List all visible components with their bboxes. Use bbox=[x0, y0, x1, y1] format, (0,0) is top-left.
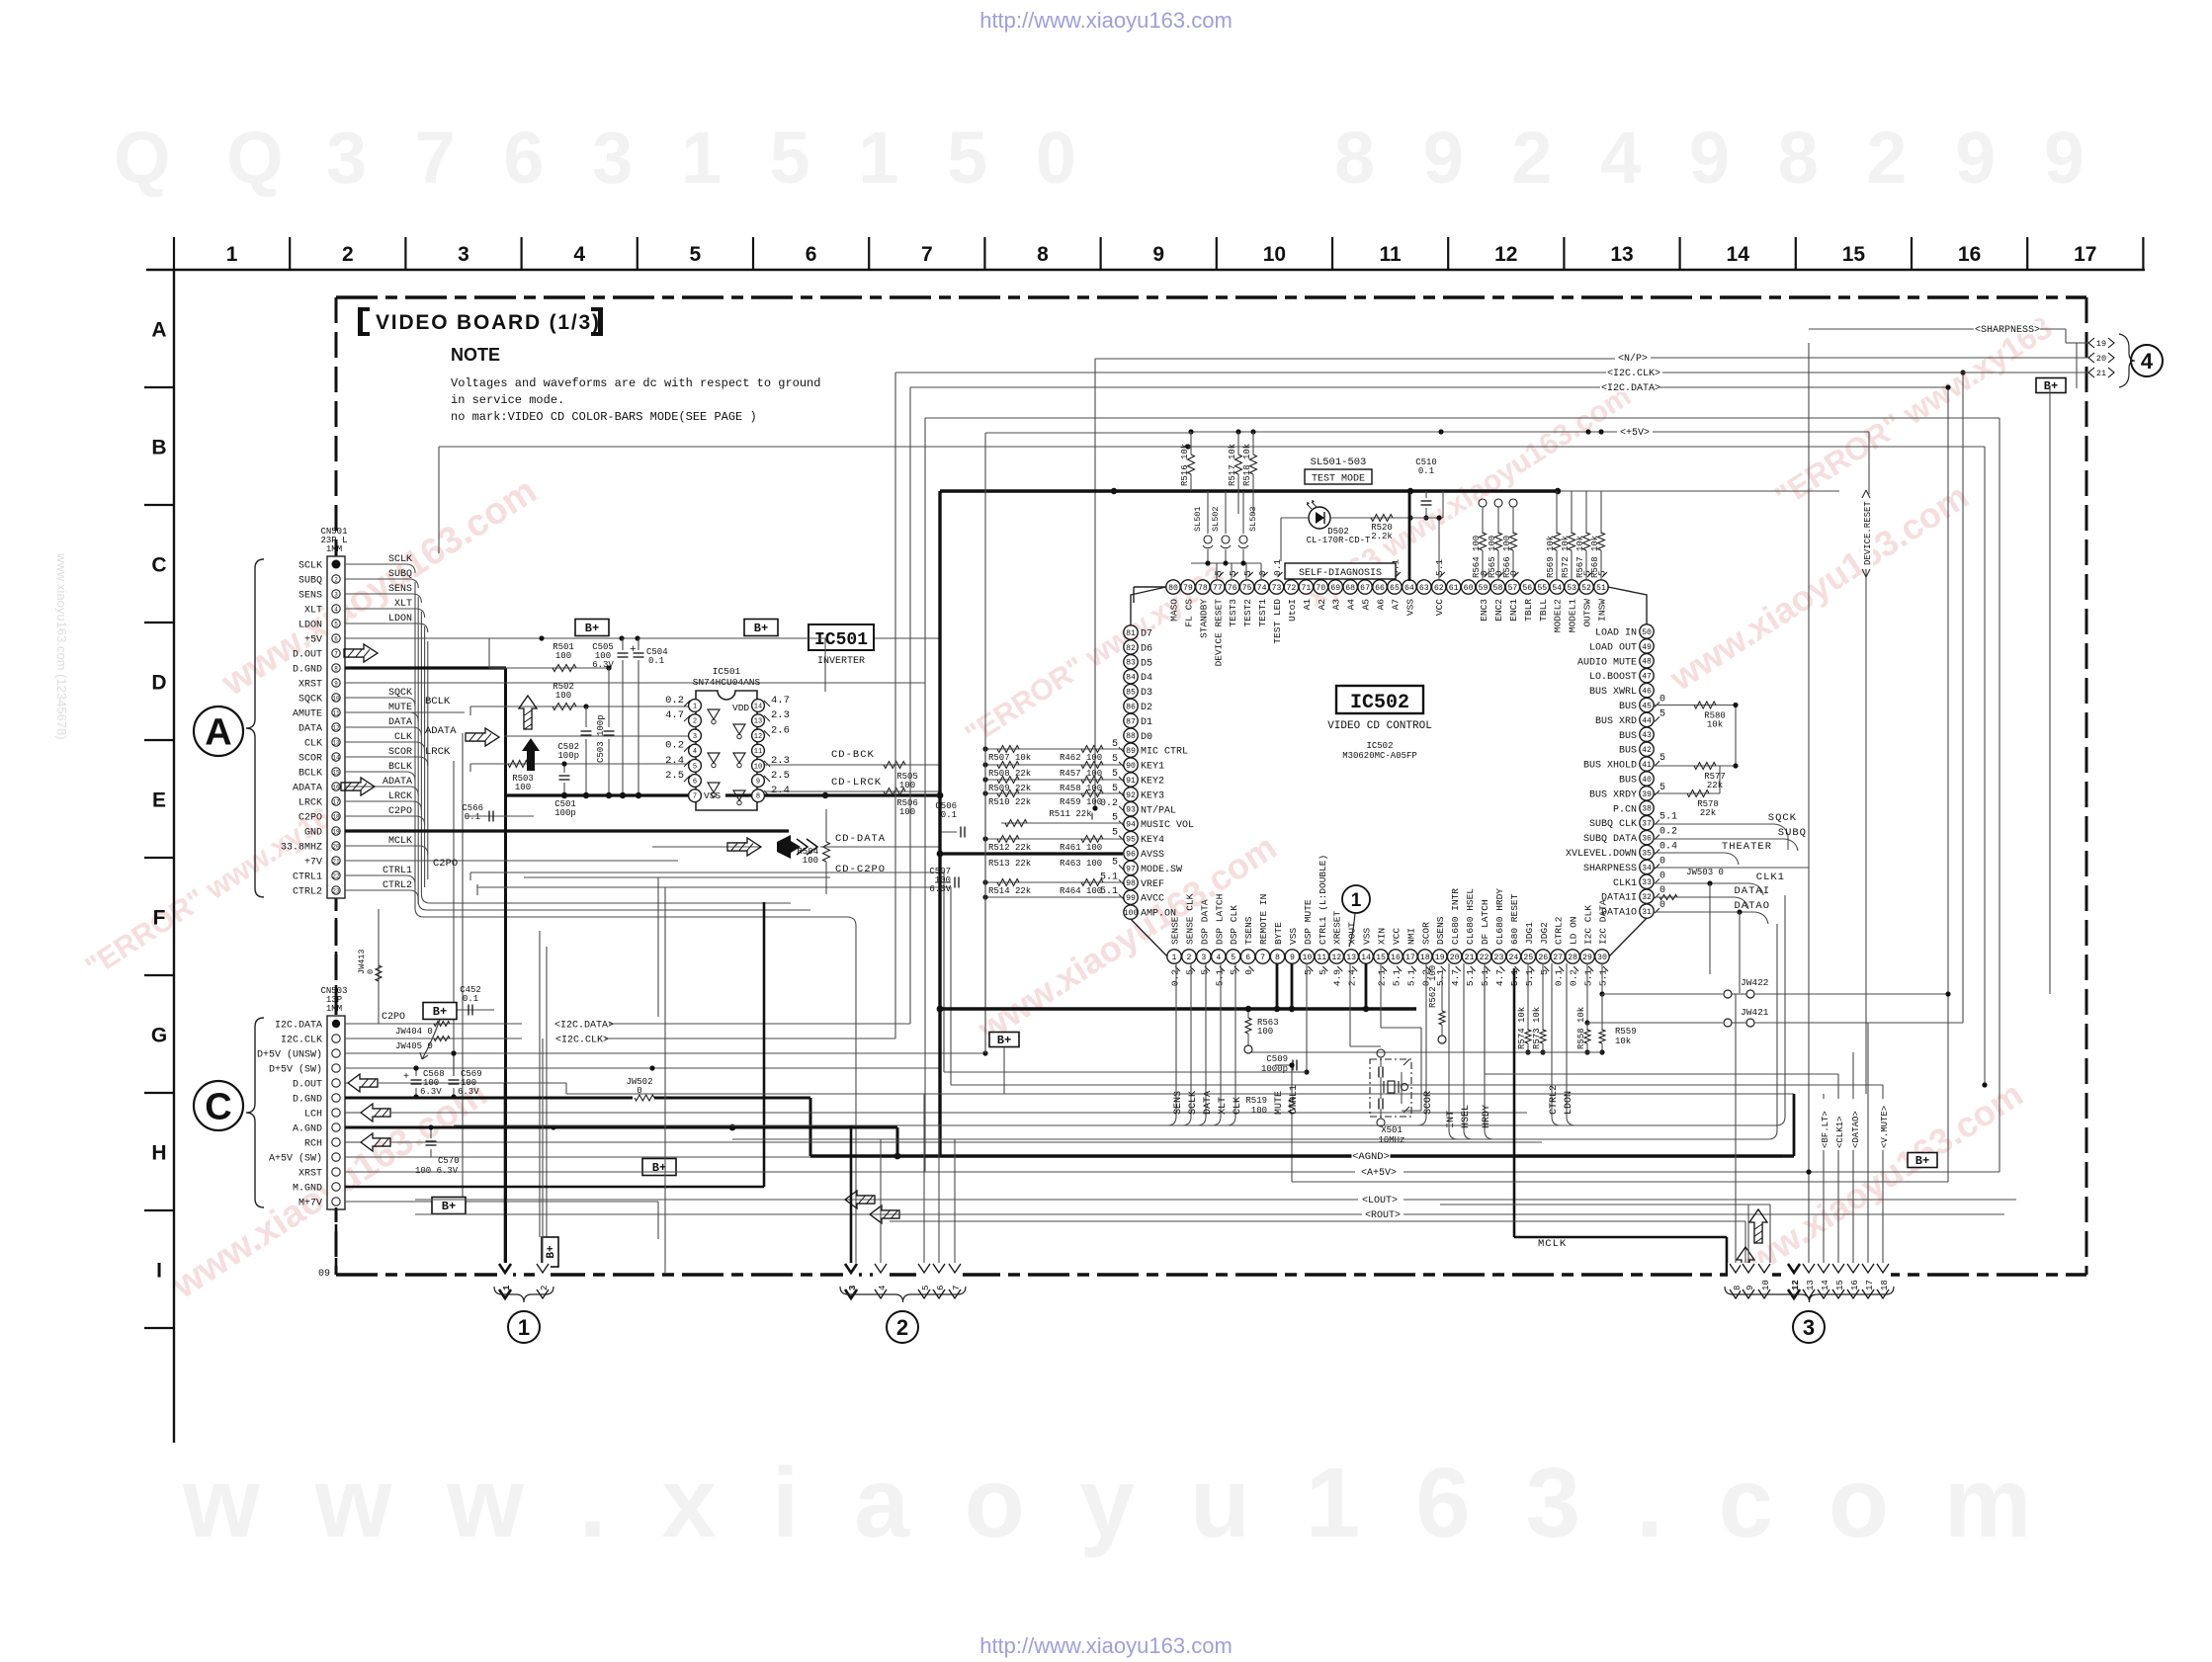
svg-text:http://www.xiaoyu163.com: http://www.xiaoyu163.com bbox=[979, 8, 1233, 33]
bus y1139 bbox=[454, 1124, 1776, 1126]
svg-text:DATA1O: DATA1O bbox=[1601, 908, 1637, 919]
svg-text:5: 5 bbox=[1659, 753, 1665, 764]
svg-text:5: 5 bbox=[1112, 857, 1118, 868]
svg-text:78: 78 bbox=[1198, 584, 1208, 593]
wire BCLK long bbox=[470, 706, 688, 707]
svg-text:5.1: 5.1 bbox=[1583, 969, 1594, 986]
IC502 pin 85 bbox=[1124, 684, 1138, 698]
svg-text:R573 10k: R573 10k bbox=[1532, 1007, 1542, 1049]
svg-text:D.GND: D.GND bbox=[293, 665, 322, 676]
switch SL501 bbox=[1207, 491, 1209, 534]
svg-text:8: 8 bbox=[334, 665, 338, 672]
IC502 pin 63 bbox=[1417, 580, 1431, 594]
svg-text:JW404 0: JW404 0 bbox=[395, 1027, 433, 1037]
svg-text:5.1: 5.1 bbox=[1214, 969, 1225, 986]
IC502 pin 77 bbox=[1211, 580, 1225, 594]
svg-text:10: 10 bbox=[1302, 954, 1312, 962]
svg-text:38: 38 bbox=[1642, 805, 1652, 814]
svg-text:20: 20 bbox=[332, 843, 340, 850]
svg-text:5.1: 5.1 bbox=[1659, 812, 1677, 823]
brace group 1-2 bbox=[494, 1287, 553, 1302]
svg-text:75: 75 bbox=[1242, 584, 1252, 593]
svg-text:1: 1 bbox=[1351, 890, 1362, 911]
svg-text:INSW: INSW bbox=[1596, 599, 1607, 622]
AGND thick bus bbox=[810, 1154, 1782, 1157]
IC502 pin 45 bbox=[1640, 698, 1654, 711]
wire CLK down bbox=[1234, 963, 1236, 1117]
svg-text:TEST MODE: TEST MODE bbox=[1312, 474, 1365, 485]
VSS pin64 thick drop bbox=[1408, 491, 1411, 581]
svg-text:XVLEVEL.DOWN: XVLEVEL.DOWN bbox=[1566, 849, 1637, 860]
svg-text:SUBQ: SUBQ bbox=[298, 576, 322, 587]
svg-text:R509 22k: R509 22k bbox=[988, 784, 1031, 793]
svg-text:D5: D5 bbox=[1141, 658, 1152, 669]
capacitor C501 bbox=[563, 764, 565, 773]
IC502 pin 8 bbox=[1270, 950, 1284, 963]
svg-text:5: 5 bbox=[1112, 813, 1118, 824]
svg-text:59: 59 bbox=[1479, 584, 1489, 593]
svg-text:13: 13 bbox=[1610, 243, 1633, 266]
IC502 pin 52 bbox=[1579, 580, 1593, 594]
svg-text:F: F bbox=[153, 907, 166, 930]
IC502 pin 29 bbox=[1580, 950, 1594, 963]
CN501 pin 1 SCLK bbox=[332, 560, 341, 569]
svg-text:18: 18 bbox=[1880, 1280, 1890, 1290]
IC502 pin 68 bbox=[1343, 580, 1357, 594]
border arrow 3 bbox=[843, 1263, 859, 1298]
svg-text:12: 12 bbox=[1331, 954, 1341, 962]
svg-text:5.1: 5.1 bbox=[1465, 969, 1476, 986]
IC502 pin 98 bbox=[1124, 875, 1138, 889]
svg-text:A.GND: A.GND bbox=[293, 1124, 322, 1135]
CN503 pin 13 M+7V bbox=[332, 1198, 340, 1205]
brace group 3-7 bbox=[840, 1287, 966, 1302]
svg-text:SCOR: SCOR bbox=[1423, 1091, 1434, 1115]
CN503 pin 10 A+5V (SW) bbox=[332, 1153, 340, 1161]
wire AVCC bbox=[985, 896, 1123, 898]
svg-text:STANDBY: STANDBY bbox=[1198, 599, 1209, 638]
svg-text:ENC2: ENC2 bbox=[1493, 599, 1504, 622]
wire CN501 +7V bbox=[345, 860, 678, 862]
svg-text:60: 60 bbox=[1464, 584, 1474, 593]
svg-text:B+: B+ bbox=[1915, 1154, 1929, 1168]
svg-text:0.1: 0.1 bbox=[941, 810, 957, 820]
capacitor C502 bbox=[585, 706, 587, 727]
svg-text:P.CN: P.CN bbox=[1613, 804, 1637, 815]
svg-text:CTRL1: CTRL1 bbox=[1289, 1085, 1300, 1115]
wire CN501 GND thick bbox=[345, 829, 789, 832]
svg-text:84: 84 bbox=[1126, 674, 1136, 683]
svg-text:R513 22k: R513 22k bbox=[988, 859, 1031, 869]
svg-text:0.2: 0.2 bbox=[1100, 798, 1118, 809]
IC502 pin 32 bbox=[1640, 889, 1654, 903]
svg-text:LDON: LDON bbox=[388, 614, 412, 624]
svg-text:100p: 100p bbox=[554, 808, 576, 818]
border arrow 4 bbox=[873, 1263, 889, 1298]
IC502 pin 93 bbox=[1124, 802, 1138, 816]
pullup circles ENC bbox=[1479, 499, 1487, 507]
svg-text:100: 100 bbox=[803, 856, 818, 866]
svg-text:DATA1I: DATA1I bbox=[1601, 893, 1637, 904]
svg-text:C: C bbox=[205, 1087, 231, 1128]
svg-text:12: 12 bbox=[332, 724, 340, 731]
svg-text:50: 50 bbox=[1642, 628, 1652, 637]
IC502 pin 27 bbox=[1551, 950, 1565, 963]
wire CD-C2PO bbox=[524, 876, 830, 878]
svg-text:I2C.CLK: I2C.CLK bbox=[281, 1036, 322, 1046]
wire HSEL bbox=[1463, 963, 1465, 1130]
svg-text:9: 9 bbox=[1290, 954, 1295, 962]
IC502 pin 70 bbox=[1314, 580, 1327, 594]
svg-text:93: 93 bbox=[1126, 806, 1136, 815]
svg-text:C2PO: C2PO bbox=[433, 858, 458, 870]
IC502 pin 48 bbox=[1640, 654, 1654, 668]
svg-text:M30620MC-A05FP: M30620MC-A05FP bbox=[1342, 751, 1417, 761]
svg-text:R462 100: R462 100 bbox=[1060, 753, 1102, 763]
IC502 pin 86 bbox=[1124, 699, 1138, 712]
svg-text:19: 19 bbox=[332, 828, 340, 835]
svg-text:16: 16 bbox=[332, 784, 340, 790]
svg-text:16: 16 bbox=[1850, 1280, 1860, 1290]
svg-text:CTRL2: CTRL2 bbox=[1554, 916, 1565, 945]
svg-text:0: 0 bbox=[1659, 856, 1665, 867]
svg-text:40: 40 bbox=[1642, 776, 1652, 785]
svg-text:D.GND: D.GND bbox=[293, 1095, 322, 1106]
border arrow 14 bbox=[1816, 1263, 1831, 1298]
svg-text:LRCK: LRCK bbox=[388, 791, 412, 802]
svg-text:IC502: IC502 bbox=[1350, 692, 1409, 714]
svg-text:MODEL2: MODEL2 bbox=[1553, 599, 1564, 633]
svg-text:VSS: VSS bbox=[1404, 599, 1415, 616]
resistor R511 bbox=[1001, 822, 1123, 824]
wire CN501 SCOR bbox=[345, 756, 419, 758]
svg-text:TBLR: TBLR bbox=[1523, 599, 1534, 622]
svg-text:11: 11 bbox=[332, 709, 340, 716]
wire CTRL1 long bbox=[470, 872, 944, 873]
resistor R564 bbox=[1480, 533, 1487, 550]
svg-text:49: 49 bbox=[1642, 643, 1652, 652]
svg-text:5: 5 bbox=[1659, 783, 1665, 793]
svg-text:SL502: SL502 bbox=[1211, 506, 1221, 532]
svg-text:w w w . x i a o y u 1 6 3 . c: w w w . x i a o y u 1 6 3 . c o m bbox=[182, 1448, 2046, 1558]
resistor R572 bbox=[1571, 491, 1573, 534]
svg-text:THEATER: THEATER bbox=[1722, 841, 1772, 853]
brace group 8-18 bbox=[1725, 1287, 1894, 1302]
svg-text:TEST2: TEST2 bbox=[1242, 599, 1253, 627]
svg-text:BUS: BUS bbox=[1619, 746, 1637, 757]
vertical labels above arrows bbox=[1818, 1099, 1829, 1150]
wire CN501 ADATA bbox=[345, 786, 409, 788]
svg-text:CL680 INTR: CL680 INTR bbox=[1450, 888, 1461, 945]
IC502 pin 6 bbox=[1240, 950, 1254, 963]
resistor R565 bbox=[1495, 533, 1502, 550]
border arrow 10 bbox=[1756, 1263, 1772, 1298]
svg-text:79: 79 bbox=[1183, 584, 1193, 593]
svg-text:R461 100: R461 100 bbox=[1060, 843, 1102, 853]
CN503 pin 3 D+5V (UNSW) bbox=[332, 1049, 340, 1057]
CN501 pin 16 ADATA bbox=[332, 783, 340, 790]
svg-text:14: 14 bbox=[1727, 243, 1750, 266]
IC502 outline bbox=[1131, 587, 1166, 625]
wire loop y452 bbox=[438, 447, 440, 553]
svg-text:DSP DATA: DSP DATA bbox=[1199, 899, 1210, 945]
IC502 pin 96 bbox=[1124, 846, 1138, 860]
svg-text:MIC CTRL: MIC CTRL bbox=[1141, 747, 1188, 758]
svg-text:R459 100: R459 100 bbox=[1060, 797, 1102, 807]
wire CN503 XRST bbox=[345, 1171, 925, 1173]
IC502 pin 89 bbox=[1124, 743, 1138, 757]
svg-text:1MM: 1MM bbox=[326, 544, 342, 554]
svg-text:http://www.xiaoyu163.com: http://www.xiaoyu163.com bbox=[979, 1633, 1233, 1658]
svg-text:DATAI: DATAI bbox=[1734, 885, 1770, 897]
svg-text:2.6: 2.6 bbox=[771, 724, 790, 736]
IC502 pin 47 bbox=[1640, 669, 1654, 683]
thick AVSS wire bbox=[940, 852, 1123, 855]
svg-text:CLK1: CLK1 bbox=[1756, 872, 1785, 883]
capacitor C503 bbox=[608, 668, 610, 727]
svg-text:18: 18 bbox=[332, 813, 340, 820]
IC502 pin 97 bbox=[1124, 861, 1138, 874]
svg-text:JDG2: JDG2 bbox=[1539, 922, 1550, 945]
svg-text:16: 16 bbox=[1391, 954, 1401, 962]
svg-text:8: 8 bbox=[1275, 954, 1280, 962]
svg-text:100: 100 bbox=[1124, 909, 1139, 918]
svg-text:57: 57 bbox=[1507, 584, 1517, 593]
svg-text:3: 3 bbox=[693, 733, 697, 741]
IC502 pin 2 bbox=[1182, 950, 1196, 963]
svg-text:2.5: 2.5 bbox=[665, 770, 684, 782]
svg-text:SQCK: SQCK bbox=[1768, 812, 1797, 824]
svg-text:DATA: DATA bbox=[388, 717, 412, 728]
svg-text:77: 77 bbox=[1213, 584, 1223, 593]
IC502 pin 71 bbox=[1299, 580, 1313, 594]
CN503 pin 9 RCH bbox=[332, 1138, 340, 1146]
svg-text:<DATAO>: <DATAO> bbox=[1851, 1111, 1861, 1148]
svg-text:88: 88 bbox=[1126, 732, 1136, 741]
svg-text:D3: D3 bbox=[1141, 688, 1152, 699]
svg-text:4.7: 4.7 bbox=[665, 709, 684, 721]
svg-text:ENC1: ENC1 bbox=[1508, 599, 1519, 622]
IC502 pin 26 bbox=[1536, 950, 1550, 963]
svg-text:MCLK: MCLK bbox=[388, 836, 412, 847]
svg-text:MCLK: MCLK bbox=[1538, 1238, 1567, 1250]
resistor R507 bbox=[985, 748, 1123, 750]
svg-text:0.1: 0.1 bbox=[1418, 466, 1434, 476]
resistor R512 bbox=[985, 838, 1123, 840]
IC502 pin 11 bbox=[1315, 950, 1328, 963]
IC501 pins left bbox=[689, 700, 702, 712]
svg-text:OUTSW: OUTSW bbox=[1582, 599, 1593, 627]
svg-text:10k: 10k bbox=[1707, 720, 1723, 730]
svg-text:A+5V (SW): A+5V (SW) bbox=[269, 1153, 322, 1165]
wire LDON bbox=[1566, 963, 1568, 1117]
IC502 pin 64 bbox=[1403, 580, 1416, 594]
IC502 pin 65 bbox=[1388, 580, 1402, 594]
svg-text:23: 23 bbox=[332, 887, 340, 894]
IC502 pin 15 bbox=[1374, 950, 1388, 963]
wire CN501 D.GND thick bbox=[345, 666, 506, 669]
arrow ROUT bbox=[870, 1205, 899, 1223]
svg-text:B+: B+ bbox=[546, 1245, 557, 1259]
svg-text:0.2: 0.2 bbox=[665, 695, 684, 706]
svg-text:SUBQ: SUBQ bbox=[1778, 827, 1807, 839]
CN501 pin 13 CLK bbox=[332, 738, 340, 746]
wire CN501 XLT bbox=[345, 608, 416, 610]
wire CN501 CLK bbox=[345, 741, 416, 743]
svg-text:LCH: LCH bbox=[304, 1110, 322, 1121]
svg-text:3: 3 bbox=[334, 591, 338, 598]
svg-text:SENSE: SENSE bbox=[1170, 916, 1181, 945]
svg-text:<I2C.CLK>: <I2C.CLK> bbox=[555, 1036, 609, 1046]
svg-text:10k: 10k bbox=[1615, 1037, 1631, 1046]
svg-text:53: 53 bbox=[1567, 584, 1576, 593]
IC502 pin 49 bbox=[1640, 639, 1654, 653]
border arrow 17 bbox=[1860, 1263, 1876, 1298]
svg-text:KEY3: KEY3 bbox=[1141, 790, 1164, 801]
capacitor C505 bbox=[622, 638, 624, 650]
IC502 pin 83 bbox=[1124, 655, 1138, 669]
CN501 pin 5 LDON bbox=[332, 620, 340, 627]
svg-text:3: 3 bbox=[458, 243, 469, 266]
CN501 pin 18 C2PO bbox=[332, 812, 340, 820]
IC502 pin 92 bbox=[1124, 788, 1138, 801]
ruler row ticks and letters bbox=[144, 386, 174, 388]
svg-text:0: 0 bbox=[1659, 900, 1665, 911]
IC502 pin 3 bbox=[1197, 950, 1211, 963]
svg-text:+5V: +5V bbox=[304, 635, 322, 646]
svg-text:JW421: JW421 bbox=[1741, 1007, 1769, 1018]
svg-text:<I2C.CLK>: <I2C.CLK> bbox=[1607, 369, 1660, 379]
wire CN501 SCLK bbox=[345, 563, 406, 565]
CN503 pin 5 D.OUT bbox=[332, 1079, 340, 1087]
svg-text:XRST: XRST bbox=[298, 680, 322, 691]
IC502 pin 72 bbox=[1284, 580, 1298, 594]
IC502 pin 18 bbox=[1418, 950, 1432, 963]
svg-text:AVCC: AVCC bbox=[1141, 894, 1164, 905]
svg-text:9: 9 bbox=[1152, 243, 1164, 266]
CN503 pin 8 A.GND bbox=[332, 1123, 340, 1131]
svg-text:SCLK: SCLK bbox=[1188, 1091, 1199, 1115]
svg-text:87: 87 bbox=[1126, 717, 1136, 726]
wire DATA down bbox=[1205, 963, 1207, 1117]
svg-text:4.7: 4.7 bbox=[1494, 969, 1505, 986]
resistor R520 bbox=[1330, 517, 1410, 519]
IC502 pin 53 bbox=[1565, 580, 1578, 594]
svg-text:I2C.DATA: I2C.DATA bbox=[275, 1021, 322, 1032]
svg-text:A: A bbox=[151, 319, 166, 342]
svg-text:<N/P>: <N/P> bbox=[1618, 353, 1648, 365]
svg-text:R567 10k: R567 10k bbox=[1575, 536, 1585, 578]
IC502 pin 13 bbox=[1344, 950, 1358, 963]
svg-text:LO.BOOST: LO.BOOST bbox=[1589, 672, 1637, 683]
IC502 pin 14 bbox=[1359, 950, 1373, 963]
svg-text:BUS: BUS bbox=[1619, 776, 1637, 787]
CN501 pin 6 +5V bbox=[332, 634, 340, 642]
B+ box c452 bbox=[423, 1003, 457, 1020]
svg-text:14: 14 bbox=[1821, 1280, 1830, 1290]
wire loop N/P bbox=[1095, 358, 1615, 360]
schematic border bbox=[336, 295, 2086, 298]
svg-text:R572 10k: R572 10k bbox=[1561, 536, 1571, 578]
svg-text:2: 2 bbox=[334, 576, 338, 583]
IC502 pin 87 bbox=[1124, 713, 1138, 727]
svg-text:13: 13 bbox=[332, 739, 340, 746]
svg-text:81: 81 bbox=[1126, 629, 1136, 638]
vertical bus left of IC502 bbox=[984, 749, 986, 1053]
svg-text:SCLK: SCLK bbox=[388, 554, 412, 565]
circled 3 bottom bbox=[1793, 1311, 1825, 1343]
svg-text:B+: B+ bbox=[652, 1161, 666, 1175]
svg-text:INVERTER: INVERTER bbox=[817, 656, 865, 667]
svg-text:D: D bbox=[151, 672, 166, 695]
svg-text:<+5V>: <+5V> bbox=[1620, 428, 1650, 439]
svg-text:VIDEO CD CONTROL: VIDEO CD CONTROL bbox=[1327, 720, 1432, 732]
wire CN503 LCH bbox=[345, 1112, 361, 1114]
CN501 pin 2 SUBQ bbox=[332, 575, 340, 583]
CN503 pin 11 XRST bbox=[332, 1168, 340, 1176]
svg-text:1: 1 bbox=[693, 703, 697, 710]
svg-text:M.GND: M.GND bbox=[293, 1184, 322, 1195]
svg-text:30: 30 bbox=[1597, 954, 1607, 962]
IC502 pin 1 bbox=[1167, 950, 1181, 963]
wire SCLK down bbox=[1190, 963, 1192, 1117]
svg-text:5: 5 bbox=[690, 243, 702, 266]
svg-text:R564 100: R564 100 bbox=[1472, 536, 1482, 578]
svg-text:39: 39 bbox=[1642, 790, 1652, 799]
IC502 pin 99 bbox=[1124, 890, 1138, 904]
svg-text:VDD: VDD bbox=[732, 703, 749, 713]
svg-text:7: 7 bbox=[693, 793, 697, 801]
svg-text:in service mode.: in service mode. bbox=[451, 393, 564, 407]
ruler top line bbox=[146, 269, 2145, 271]
svg-text:21: 21 bbox=[332, 858, 340, 865]
svg-text:MUTE: MUTE bbox=[388, 703, 412, 713]
TEST MODE box bbox=[1305, 469, 1372, 484]
ruler col ticks and numbers bbox=[173, 237, 175, 270]
IC502 label box bbox=[1336, 686, 1423, 713]
svg-text:19: 19 bbox=[2096, 339, 2106, 349]
svg-text:13: 13 bbox=[1806, 1280, 1816, 1290]
svg-text:0.1: 0.1 bbox=[1554, 969, 1565, 986]
svg-text:CTRL1 (L:DOUBLE): CTRL1 (L:DOUBLE) bbox=[1318, 855, 1328, 945]
CN503 pin 6 D.GND bbox=[332, 1094, 340, 1102]
resistor R580 bbox=[1655, 705, 1736, 706]
IC501 inverter gates bbox=[708, 709, 720, 719]
svg-text:<ROUT>: <ROUT> bbox=[1365, 1210, 1401, 1221]
svg-text:69: 69 bbox=[1330, 584, 1340, 593]
svg-text:3: 3 bbox=[1201, 954, 1206, 962]
svg-text:21: 21 bbox=[2096, 369, 2106, 378]
IC502 pin 54 bbox=[1550, 580, 1564, 594]
off-page arrow D.OUT bbox=[344, 644, 378, 662]
svg-text:71: 71 bbox=[1301, 584, 1311, 593]
svg-text:8: 8 bbox=[1037, 243, 1049, 266]
border arrow 8 bbox=[1728, 1263, 1744, 1298]
B+ box top right bbox=[2036, 378, 2066, 393]
svg-text:www.xiaoyu163.com (12345678): www.xiaoyu163.com (12345678) bbox=[54, 552, 69, 740]
IC502 pin 46 bbox=[1640, 683, 1654, 697]
svg-text:AMUTE: AMUTE bbox=[293, 709, 322, 720]
border arrow 13 bbox=[1801, 1263, 1817, 1298]
svg-text:6: 6 bbox=[1245, 954, 1250, 962]
svg-text:A6: A6 bbox=[1376, 599, 1387, 611]
svg-text:MODEL1: MODEL1 bbox=[1568, 599, 1578, 633]
svg-text:SENS: SENS bbox=[298, 591, 322, 602]
svg-text:DSP MUTE: DSP MUTE bbox=[1303, 899, 1314, 945]
svg-text:14: 14 bbox=[1361, 954, 1371, 962]
svg-text:SCLK: SCLK bbox=[298, 561, 322, 572]
svg-text:NT/PAL: NT/PAL bbox=[1141, 804, 1176, 816]
